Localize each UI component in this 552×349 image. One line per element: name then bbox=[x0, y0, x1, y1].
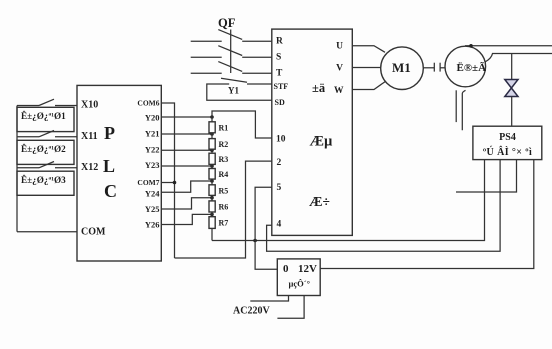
svg-text:Y24: Y24 bbox=[145, 189, 160, 199]
svg-text:Y20: Y20 bbox=[145, 113, 160, 123]
12V power supply box bbox=[277, 259, 320, 296]
Y1 contact box bbox=[207, 84, 272, 100]
wire common bottom to inverter pin 2 bbox=[175, 161, 272, 258]
QF linkage bbox=[230, 30, 232, 74]
motor M1 circle bbox=[381, 47, 424, 90]
svg-text:Y23: Y23 bbox=[145, 160, 160, 170]
wire PS4 pin3 bbox=[456, 160, 517, 192]
wire COM6 to common vertical bbox=[161, 103, 174, 258]
wire V to motor bbox=[352, 67, 380, 69]
wire Y25 bbox=[161, 198, 212, 209]
svg-text:U: U bbox=[336, 42, 343, 52]
svg-text:COM7: COM7 bbox=[137, 178, 159, 187]
svg-text:R7: R7 bbox=[219, 219, 229, 228]
wire 12V box to PS4 pin4 bbox=[320, 160, 534, 269]
pump drain pipe right bbox=[462, 90, 465, 130]
svg-text:R2: R2 bbox=[219, 140, 229, 149]
svg-text:ºÚ ÂÌ °× ºì: ºÚ ÂÌ °× ºì bbox=[483, 146, 532, 158]
svg-text:Ê±¿Ø¿ª¹Ø2: Ê±¿Ø¿ª¹Ø2 bbox=[21, 144, 66, 154]
svg-text:µçÔ´°: µçÔ´° bbox=[289, 279, 311, 289]
svg-text:Ê±¿Ø¿ª¹Ø1: Ê±¿Ø¿ª¹Ø1 bbox=[21, 111, 66, 121]
svg-text:X12: X12 bbox=[81, 162, 98, 173]
svg-text:12V: 12V bbox=[298, 263, 317, 275]
svg-text:V: V bbox=[336, 64, 343, 74]
wire U to motor bbox=[352, 46, 385, 53]
resistor R2 bbox=[209, 139, 215, 150]
svg-text:COM6: COM6 bbox=[137, 99, 159, 108]
svg-text:Ê±¿Ø¿ª¹Ø3: Ê±¿Ø¿ª¹Ø3 bbox=[21, 175, 66, 185]
svg-text:X10: X10 bbox=[81, 100, 98, 111]
svg-text:L: L bbox=[103, 156, 115, 176]
svg-text:S: S bbox=[276, 53, 281, 63]
svg-text:2: 2 bbox=[277, 158, 282, 168]
wire inverter pin 5 to rail and 12V box 0 terminal bbox=[255, 187, 277, 269]
COM wire to PLC bbox=[17, 231, 77, 233]
time switch 2 label box bbox=[17, 140, 74, 164]
svg-text:M1: M1 bbox=[392, 60, 411, 75]
resistor chain vertical bbox=[211, 117, 213, 241]
svg-text:R1: R1 bbox=[219, 124, 229, 133]
pump circle bbox=[445, 46, 486, 87]
svg-text:4: 4 bbox=[277, 220, 282, 230]
wire Y20 to R1 top bbox=[161, 116, 212, 118]
QF pole R bbox=[191, 40, 222, 42]
resistor R7 bbox=[209, 217, 215, 229]
node R1 top bbox=[210, 115, 214, 119]
svg-text:STF: STF bbox=[274, 82, 289, 91]
resistor R6 bbox=[209, 201, 215, 212]
wire Y21 bbox=[161, 133, 212, 135]
wire Y24 bbox=[161, 181, 212, 192]
svg-text:C: C bbox=[104, 181, 117, 201]
svg-text:R5: R5 bbox=[219, 186, 229, 195]
wire inverter pin 4 to PS4 pin2 bbox=[267, 160, 501, 252]
svg-text:R3: R3 bbox=[219, 155, 229, 164]
wire node to inverter pin 10 bbox=[212, 111, 272, 138]
Y1 contact blade on STF wire bbox=[221, 78, 247, 82]
AC220V wire A bbox=[250, 296, 288, 302]
pipe line 2 from pump right bbox=[485, 54, 552, 63]
svg-text:Y25: Y25 bbox=[145, 204, 160, 214]
resistor R4 bbox=[209, 169, 215, 180]
svg-text:COM: COM bbox=[81, 227, 106, 238]
svg-text:QF: QF bbox=[218, 16, 236, 30]
svg-text:PS4: PS4 bbox=[499, 132, 516, 143]
svg-text:R: R bbox=[276, 37, 283, 47]
switch S1 to X10 bbox=[17, 105, 39, 107]
svg-text:SD: SD bbox=[275, 98, 285, 107]
valve lower wire bbox=[511, 97, 513, 127]
pipe line top bbox=[465, 45, 552, 47]
shaft coupling bbox=[423, 67, 434, 69]
wire COM7 to common vertical bbox=[161, 182, 174, 184]
svg-text:Y1: Y1 bbox=[228, 86, 239, 96]
svg-text:5: 5 bbox=[277, 183, 282, 193]
wire Y22 bbox=[161, 149, 212, 151]
svg-text:AC220V: AC220V bbox=[233, 306, 270, 317]
PLC U1 box bbox=[77, 85, 161, 261]
wire Y23 bbox=[161, 165, 212, 167]
svg-text:Y22: Y22 bbox=[145, 145, 160, 155]
time switch 3 label box bbox=[17, 171, 74, 195]
node pump top junction bbox=[469, 44, 473, 48]
time switch 1 label box bbox=[17, 107, 74, 131]
switch S3 to X12 bbox=[17, 167, 39, 169]
STF wire stub bbox=[247, 83, 272, 85]
AC220V wire B bbox=[277, 296, 304, 319]
svg-text:0: 0 bbox=[283, 263, 289, 275]
resistor R5 bbox=[209, 185, 215, 196]
svg-text:R4: R4 bbox=[219, 170, 229, 179]
QF pole S bbox=[191, 56, 222, 58]
pump drain pipe left bbox=[455, 90, 457, 122]
node COM7 junction bbox=[173, 181, 177, 185]
switch S2 to X11 bbox=[17, 136, 39, 138]
resistor R3 bbox=[209, 153, 215, 164]
svg-text:10: 10 bbox=[276, 135, 286, 145]
inverter U2 box bbox=[272, 29, 353, 235]
wire W to motor bbox=[352, 82, 385, 90]
svg-text:Æµ: Æµ bbox=[310, 134, 334, 150]
PS4 sensor box bbox=[473, 126, 542, 159]
svg-text:R6: R6 bbox=[219, 203, 229, 212]
QF pole T bbox=[191, 72, 222, 74]
svg-text:Æ÷: Æ÷ bbox=[309, 194, 330, 209]
svg-text:X11: X11 bbox=[81, 131, 98, 142]
left common vertical wire bbox=[16, 106, 18, 232]
node rail/pin5 junction bbox=[253, 239, 257, 243]
wire Y26 bbox=[161, 214, 212, 224]
resistor R1 bbox=[209, 122, 215, 133]
valve V1 bbox=[505, 80, 518, 97]
svg-text:W: W bbox=[334, 86, 344, 96]
valve upper wire bbox=[511, 54, 513, 80]
ground rail wire bbox=[212, 160, 485, 241]
svg-text:P: P bbox=[104, 123, 115, 143]
svg-text:T: T bbox=[276, 69, 283, 79]
svg-text:Y21: Y21 bbox=[145, 129, 160, 139]
svg-text:Ë®±Ã: Ë®±Ã bbox=[457, 61, 487, 74]
svg-text:Y26: Y26 bbox=[145, 220, 160, 230]
svg-text:±ä: ±ä bbox=[312, 81, 326, 95]
